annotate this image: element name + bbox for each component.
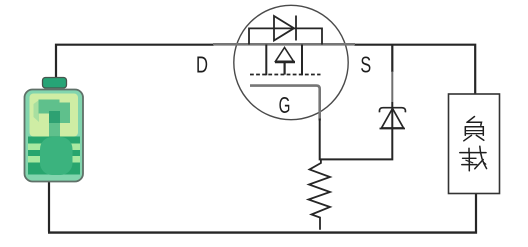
svg-text:G: G: [279, 92, 291, 118]
svg-text:D: D: [196, 52, 208, 78]
svg-text:S: S: [360, 51, 371, 77]
